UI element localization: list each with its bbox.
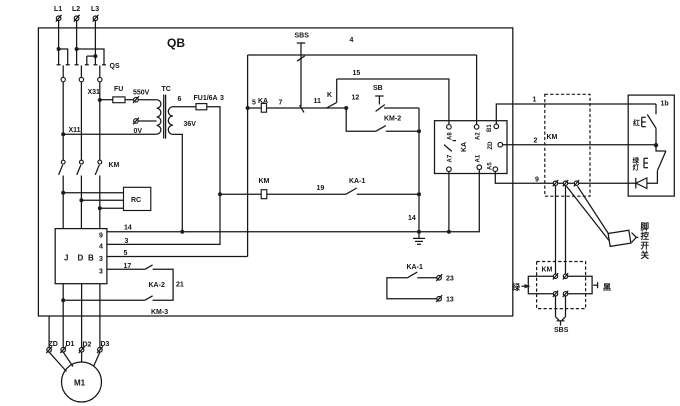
svg-text:ZD: ZD <box>49 341 58 348</box>
terminal 9c <box>574 180 579 186</box>
terminal b2-tl <box>553 273 558 279</box>
terminal b2-bl <box>553 291 558 297</box>
wire ZD earth <box>48 316 50 348</box>
contact KA-2 <box>145 265 184 300</box>
svg-text:3: 3 <box>125 238 129 245</box>
wire phase2 to JDB <box>80 200 82 228</box>
node RC tap 2 <box>79 198 83 202</box>
ground <box>413 232 425 245</box>
terminal 9a <box>553 180 558 186</box>
svg-text:3: 3 <box>99 269 103 276</box>
wire X11 to TC <box>63 133 156 135</box>
wire FU-550V <box>125 99 134 101</box>
terminal b2-br <box>563 291 568 297</box>
wire pedal lead 2 <box>578 186 610 234</box>
coil KM <box>259 178 270 199</box>
svg-text:KM-2: KM-2 <box>384 116 401 123</box>
wire 14 rail <box>107 170 479 232</box>
terminal L3 <box>91 6 99 22</box>
wire phase2 <box>80 82 82 160</box>
pushbutton SBS bottom <box>554 296 569 334</box>
svg-text:KM: KM <box>259 178 270 185</box>
wire 3 rail <box>107 107 220 245</box>
node 12 <box>344 95 359 111</box>
protector JDB <box>55 229 107 284</box>
contact KA-1 <box>346 178 419 194</box>
svg-text:9: 9 <box>535 177 539 184</box>
terminal 23 <box>436 274 454 282</box>
svg-text:KA-2: KA-2 <box>149 282 165 289</box>
svg-text:9: 9 <box>99 233 103 240</box>
wire RC 2 <box>81 199 123 201</box>
pedal switch 1b box <box>628 95 674 196</box>
svg-text:黑: 黑 <box>603 282 611 292</box>
terminal D3 <box>97 341 109 353</box>
pin B1 <box>494 124 499 129</box>
svg-text:SB: SB <box>373 85 383 92</box>
contact KM-2 <box>346 108 419 131</box>
svg-text:SBS: SBS <box>554 327 569 334</box>
wire phase3 below JDB <box>99 284 101 348</box>
pin A1 <box>477 165 482 170</box>
terminal 0V <box>133 118 157 135</box>
node RC tap 3 <box>98 206 102 210</box>
wire terminal to box2 left <box>555 185 557 274</box>
svg-text:15: 15 <box>353 70 361 77</box>
svg-text:3: 3 <box>99 256 103 263</box>
terminal ZD <box>46 341 58 353</box>
contact lamp inside 1b <box>633 145 666 183</box>
node KM-2 join <box>417 129 421 133</box>
svg-text:1b: 1b <box>661 101 669 108</box>
node L2-QS <box>75 47 79 51</box>
relay socket KA <box>435 121 508 174</box>
svg-text:KM: KM <box>542 267 553 274</box>
svg-text:D: D <box>78 254 84 263</box>
wire KA coil left <box>248 107 262 109</box>
node X31 <box>88 89 102 102</box>
svg-text:6: 6 <box>178 96 182 103</box>
node A7 rail <box>447 230 451 234</box>
motor lead ZD <box>49 352 66 371</box>
wire 5 <box>107 250 248 257</box>
svg-text:A1: A1 <box>476 154 482 162</box>
svg-text:QS: QS <box>110 63 120 70</box>
diode <box>628 178 647 189</box>
wire 4 to pin A2 <box>476 55 478 125</box>
contactor KM main contact 1 <box>59 160 66 193</box>
svg-text:TC: TC <box>162 86 171 93</box>
svg-text:550V: 550V <box>133 90 150 97</box>
label black wire <box>593 282 611 292</box>
contact KM inside 1b <box>628 104 656 145</box>
wire pedal lead 1 <box>567 186 610 240</box>
svg-text:14: 14 <box>408 215 416 222</box>
node ground join <box>417 230 421 234</box>
svg-text:1: 1 <box>533 97 537 104</box>
svg-text:3: 3 <box>220 95 224 102</box>
svg-text:X11: X11 <box>69 127 81 134</box>
wire 6 <box>173 96 196 107</box>
svg-text:4: 4 <box>350 37 354 44</box>
label green wire <box>512 282 531 292</box>
snubber RC <box>124 187 151 210</box>
pin A7 <box>447 167 452 172</box>
coil KA <box>258 98 268 112</box>
svg-text:FU1/6A: FU1/6A <box>194 95 218 102</box>
node KA-1 join <box>417 192 421 196</box>
contact KA-1 terminals 23/13 <box>387 264 437 299</box>
svg-text:L3: L3 <box>91 6 99 13</box>
svg-text:21: 21 <box>176 282 184 289</box>
node KA tap <box>246 106 250 110</box>
svg-text:L2: L2 <box>72 6 80 13</box>
wire 550V <box>100 99 113 101</box>
pin A2 <box>474 125 479 130</box>
switch QS pole 2 <box>75 49 104 82</box>
wire 9 <box>495 172 628 184</box>
svg-text:控: 控 <box>641 231 650 241</box>
pin ZD <box>498 142 503 147</box>
contactor KM main contact 3 <box>95 160 119 208</box>
wire 15 <box>337 70 449 125</box>
svg-text:14: 14 <box>124 225 132 232</box>
connector KM bottom dashed <box>537 262 586 309</box>
svg-text:开: 开 <box>641 241 650 251</box>
node RC tap 1 <box>61 191 65 195</box>
svg-text:KM: KM <box>547 134 558 141</box>
motor lead D1 <box>63 352 73 366</box>
wire 4 <box>248 37 477 55</box>
svg-text:A2: A2 <box>476 132 482 140</box>
svg-text:5: 5 <box>252 100 256 107</box>
pedal bracket <box>608 230 638 246</box>
svg-text:M1: M1 <box>74 379 86 388</box>
terminal 13 <box>436 295 454 303</box>
enclosure QB <box>38 28 512 316</box>
wire phase1 <box>62 82 64 160</box>
wire TC secondary bottom <box>173 134 182 231</box>
svg-text:绿: 绿 <box>633 156 640 165</box>
wire link right <box>568 276 592 294</box>
svg-text:23: 23 <box>446 276 454 283</box>
wire L1 drop <box>58 21 60 49</box>
wire phase2 below JDB <box>81 284 83 348</box>
node 3 tap <box>218 192 222 196</box>
svg-text:2: 2 <box>534 138 538 145</box>
wire terminal to box2 right <box>565 185 567 274</box>
svg-text:红: 红 <box>633 118 640 127</box>
fuse FU <box>113 86 125 103</box>
wire link left <box>528 276 553 294</box>
contact K <box>314 79 337 108</box>
svg-text:7: 7 <box>279 100 283 107</box>
pin A8 <box>447 125 452 130</box>
motor lead D3 <box>94 352 100 366</box>
svg-text:RC: RC <box>131 197 141 204</box>
svg-text:13: 13 <box>446 297 454 304</box>
wire phase1 below JDB <box>62 284 64 348</box>
svg-text:KA-1: KA-1 <box>407 264 423 271</box>
terminal D2 <box>79 342 92 354</box>
terminal D1 <box>60 341 74 353</box>
node L3-QS <box>93 54 97 58</box>
wire SB down <box>418 108 420 232</box>
wire RC 3 <box>100 207 124 209</box>
wire phase3 <box>99 82 101 160</box>
terminal L2 <box>72 6 80 22</box>
svg-text:KA: KA <box>461 142 468 152</box>
svg-text:A7: A7 <box>448 154 454 162</box>
terminal 550V <box>133 90 150 104</box>
pushbutton SBS <box>295 33 310 113</box>
node KM-3 phase1 <box>61 298 65 302</box>
svg-text:B: B <box>88 254 94 263</box>
wire L3 drop <box>94 21 96 57</box>
wire 2 <box>503 138 656 145</box>
svg-text:ZD: ZD <box>488 141 494 150</box>
wire 17 <box>107 263 145 270</box>
terminal 9b <box>563 180 568 186</box>
transformer TC <box>157 86 197 139</box>
svg-text:19: 19 <box>317 185 325 192</box>
wire pin A7 to rail 14 <box>448 172 450 232</box>
motor M1 <box>62 362 102 402</box>
svg-text:11: 11 <box>314 98 322 105</box>
wire to TC primary <box>138 99 156 101</box>
wire 1 <box>496 97 628 125</box>
wire 7 <box>267 100 347 109</box>
node X11 <box>61 127 80 136</box>
label pedal switch <box>641 222 650 261</box>
svg-text:KM: KM <box>109 162 120 169</box>
pushbutton SB <box>373 85 419 111</box>
svg-text:B1: B1 <box>487 124 493 132</box>
terminal b2-tr <box>563 273 568 279</box>
svg-text:SBS: SBS <box>295 33 310 40</box>
wire KM coil left <box>220 193 261 195</box>
fuse FU1/6A <box>194 95 225 110</box>
switch QS pole 3 <box>87 56 120 82</box>
pin A5 <box>493 167 498 172</box>
svg-text:12: 12 <box>352 95 360 102</box>
svg-text:绿: 绿 <box>512 282 521 292</box>
svg-text:KM-3: KM-3 <box>151 309 168 316</box>
svg-text:脚: 脚 <box>641 222 650 232</box>
node TC-14 <box>180 230 184 234</box>
motor lead D2 <box>81 352 83 362</box>
svg-text:关: 关 <box>641 250 650 260</box>
contact KM-3 <box>63 296 168 316</box>
wire 5 rail <box>247 55 249 257</box>
wire L2 drop <box>76 21 78 49</box>
svg-text:QB: QB <box>167 36 185 50</box>
svg-text:KA-1: KA-1 <box>349 178 365 185</box>
svg-text:A8: A8 <box>448 132 454 140</box>
svg-text:36V: 36V <box>184 121 197 128</box>
node L1-QS <box>57 47 61 51</box>
node wire2 1b <box>654 143 658 147</box>
terminal L1 <box>54 6 62 22</box>
switch QS pole 1 <box>57 49 70 82</box>
wire RC 1 <box>63 192 123 194</box>
wire 19 <box>267 185 346 194</box>
wire phase3 to JDB <box>99 208 101 228</box>
svg-text:FU: FU <box>114 86 123 93</box>
svg-text:K: K <box>327 92 332 99</box>
connector KM dashed <box>545 94 590 196</box>
svg-text:4: 4 <box>99 244 103 251</box>
svg-text:J: J <box>64 254 68 263</box>
wire phase1 to JDB <box>62 193 64 229</box>
svg-text:X31: X31 <box>88 89 101 96</box>
contactor KM main contact 2 <box>77 160 84 200</box>
svg-text:D1: D1 <box>66 341 75 348</box>
svg-text:L1: L1 <box>54 6 62 13</box>
svg-text:灯: 灯 <box>633 163 640 172</box>
